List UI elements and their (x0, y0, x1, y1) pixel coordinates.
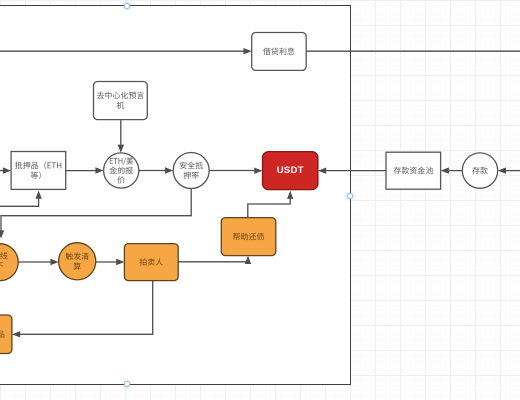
node 触发清算 circle (orange) (59, 243, 96, 280)
node 跌到清算线下 circle (orange, clipped at left edge) (0, 244, 18, 281)
wire: 拍卖人 down-left into 获得抵押品 box (20, 281, 153, 335)
wire: left edge into 抵押品 (0, 170, 3, 172)
node 帮助还债 box (orange) (221, 218, 275, 256)
node ETH/美金的报价 circle (104, 153, 139, 188)
wire: left edge up into 抵押品 bottom (0, 198, 39, 207)
node 存款资金池 box (386, 152, 441, 189)
node 借贷利息 box (252, 33, 307, 71)
wire: right edge into 存款 circle (506, 170, 520, 172)
wire: 安全抵押率 down-left into 跌到清算线下 circle (1, 189, 191, 231)
selection handle top (124, 3, 130, 9)
node 获得抵押品 box (orange, clipped at left edge) (0, 315, 12, 354)
node 去中心化预言机 box (94, 82, 148, 120)
node 抵押品（ETH等） box (11, 152, 66, 190)
wire: 拍卖人 right into 帮助还债 bottom (178, 262, 248, 264)
container pool rectangle (0, 5, 351, 385)
node 拍卖人 box (orange) (124, 244, 178, 281)
wire: 存款资金池 to USDT (326, 170, 386, 172)
node USDT box (red) (263, 152, 318, 190)
wire: 触发清算 to 拍卖人 (96, 261, 116, 263)
wire: oracle down to price circle (120, 120, 122, 145)
wire: 帮助还债 up into USDT bottom (248, 199, 290, 218)
selection handle right (347, 193, 353, 199)
label USDT (263, 152, 318, 190)
wire: 安全抵押率 to USDT (209, 170, 254, 172)
wire: 存款 circle to 存款资金池 (449, 170, 462, 172)
wire: price circle to 安全抵押率 (139, 170, 165, 172)
wire: 抵押品 to price circle (66, 170, 96, 172)
wire: 借贷利息 out to right edge (306, 50, 520, 52)
node 安全抵押率 circle (173, 153, 209, 189)
wire: interest line into 借贷利息 (0, 50, 244, 52)
node 存款 circle (462, 153, 497, 188)
selection handle bottom (124, 381, 130, 387)
wire: 跌到清算线下 to 触发清算 (18, 261, 50, 263)
